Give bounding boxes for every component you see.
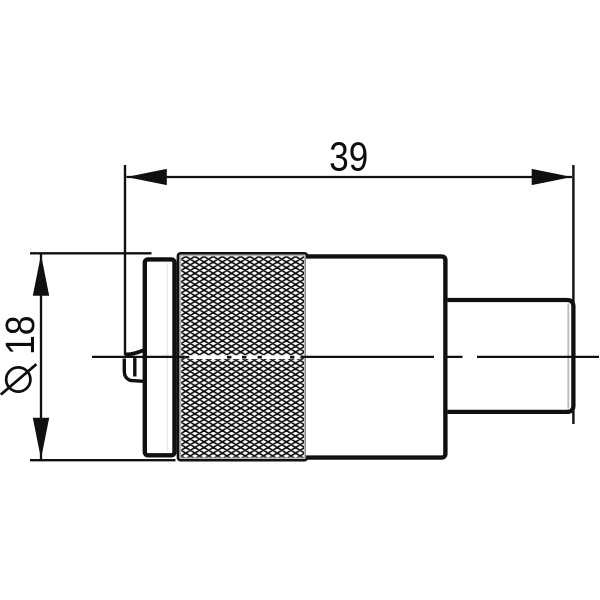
washer inner faint line [166,263,168,451]
center line [92,356,599,358]
center pin tip [124,350,143,381]
cable entry sleeve [448,300,574,412]
svg-text:39: 39 [329,135,368,180]
label 18 [0,315,44,355]
extension line right (39 dim) [572,165,574,424]
label diameter symbol [1,364,37,394]
dimension line 39 [127,176,573,178]
knurl pattern [181,256,304,457]
extension line left (39 dim) [124,165,126,355]
svg-text:18: 18 [0,315,44,355]
label 39 [329,135,368,180]
knurl center line dots [181,356,304,359]
knurled coupling nut body [178,253,307,460]
connector main body [306,256,445,457]
arrowhead left (39) [127,169,167,185]
extension line bottom (diameter 18) [30,459,176,461]
knurl gray inner frame [180,256,304,458]
sleeve end gray line [567,304,569,409]
arrowhead up (18) [33,255,49,296]
coupling nut front washer [145,259,175,455]
arrowhead down (18) [33,418,49,459]
knurl center line clearance band [181,355,304,359]
arrowhead right (39) [532,169,572,185]
extension line top (diameter 18) [30,252,152,254]
dimension line diameter 18 [40,255,42,460]
